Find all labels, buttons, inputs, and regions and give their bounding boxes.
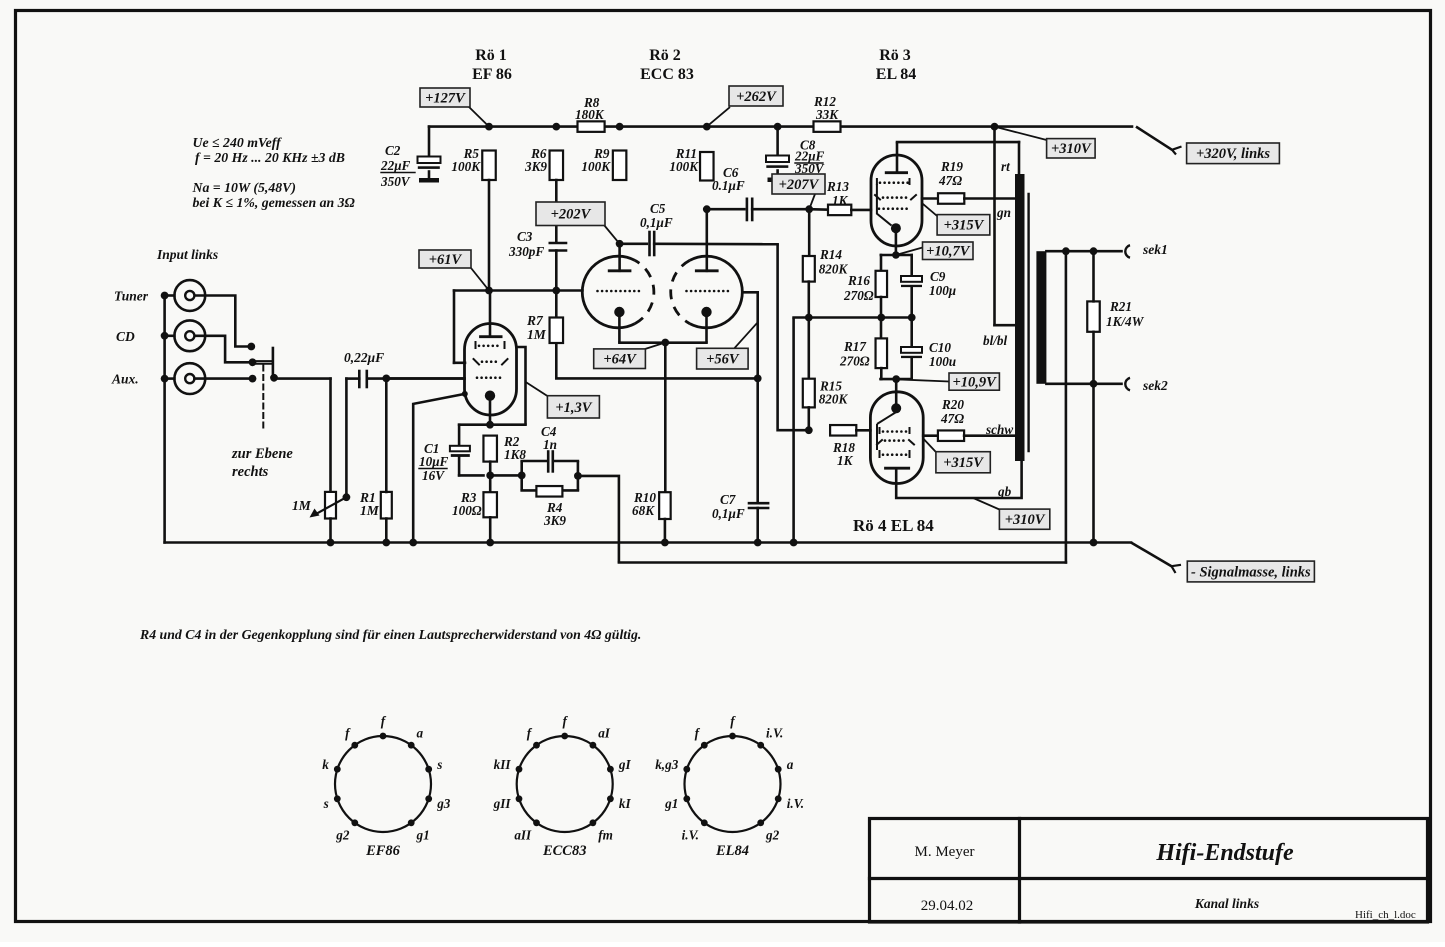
svg-text:s: s: [323, 796, 329, 811]
svg-text:350V: 350V: [380, 174, 411, 189]
svg-text:330pF: 330pF: [508, 244, 544, 259]
svg-text:1K: 1K: [837, 453, 854, 468]
svg-text:R14: R14: [819, 247, 842, 262]
svg-text:+315V: +315V: [944, 218, 985, 234]
svg-text:Hifi_ch_l.doc: Hifi_ch_l.doc: [1355, 909, 1416, 921]
svg-text:aII: aII: [514, 827, 532, 842]
svg-text:+320V, links: +320V, links: [1196, 146, 1270, 162]
svg-text:Rö 4 EL 84: Rö 4 EL 84: [853, 516, 934, 535]
svg-text:R20: R20: [941, 397, 964, 412]
svg-text:100K: 100K: [581, 159, 611, 174]
svg-text:g3: g3: [436, 796, 451, 811]
svg-text:Kanal links: Kanal links: [1194, 896, 1259, 911]
svg-text:Aux.: Aux.: [111, 372, 139, 387]
svg-text:C2: C2: [385, 143, 401, 158]
svg-text:Ue ≤ 240 mVeff: Ue ≤ 240 mVeff: [193, 135, 283, 150]
svg-text:EL84: EL84: [715, 843, 749, 859]
svg-text:C5: C5: [650, 201, 666, 216]
svg-text:ECC 83: ECC 83: [640, 66, 694, 83]
svg-text:100Ω: 100Ω: [452, 503, 482, 518]
svg-text:100u: 100u: [929, 354, 956, 369]
svg-text:bei K ≤ 1%, gemessen an 3Ω: bei K ≤ 1%, gemessen an 3Ω: [193, 195, 356, 210]
svg-text:g1: g1: [664, 796, 678, 811]
svg-text:Rö 3: Rö 3: [879, 47, 911, 64]
svg-text:3K9: 3K9: [524, 159, 547, 174]
svg-text:Rö 2: Rö 2: [649, 47, 681, 64]
svg-text:0,1μF: 0,1μF: [712, 506, 745, 521]
svg-text:- Signalmasse, links: - Signalmasse, links: [1191, 564, 1311, 580]
svg-text:rt: rt: [1001, 159, 1010, 174]
svg-text:gn: gn: [996, 205, 1011, 220]
svg-text:68K: 68K: [632, 503, 655, 518]
svg-text:R7: R7: [526, 313, 544, 328]
svg-text:gII: gII: [493, 796, 512, 811]
svg-text:gb: gb: [997, 484, 1012, 499]
svg-text:C10: C10: [929, 340, 951, 355]
svg-text:+262V: +262V: [736, 89, 777, 105]
svg-text:+310V: +310V: [1051, 141, 1092, 157]
svg-text:M. Meyer: M. Meyer: [915, 844, 975, 860]
svg-text:kI: kI: [619, 796, 632, 811]
svg-text:+1,3V: +1,3V: [555, 400, 592, 416]
svg-text:R19: R19: [940, 159, 963, 174]
svg-text:+127V: +127V: [425, 90, 466, 106]
svg-text:EF86: EF86: [365, 843, 401, 859]
svg-text:1K/4W: 1K/4W: [1106, 314, 1145, 329]
svg-text:1M: 1M: [360, 503, 380, 518]
svg-text:820K: 820K: [819, 392, 849, 407]
svg-text:i.V.: i.V.: [787, 796, 804, 811]
svg-text:270Ω: 270Ω: [839, 354, 870, 369]
svg-text:0.1μF: 0.1μF: [712, 178, 745, 193]
svg-text:R21: R21: [1109, 299, 1132, 314]
svg-text:schw: schw: [985, 422, 1013, 437]
svg-text:1M: 1M: [527, 327, 547, 342]
svg-text:+10,7V: +10,7V: [926, 244, 971, 260]
svg-text:1K: 1K: [832, 193, 849, 208]
svg-text:10μF: 10μF: [419, 454, 449, 469]
svg-text:R16: R16: [847, 273, 870, 288]
svg-text:100μ: 100μ: [929, 283, 956, 298]
svg-text:g2: g2: [765, 827, 780, 842]
svg-text:kII: kII: [494, 757, 512, 772]
svg-text:C9: C9: [930, 269, 946, 284]
svg-text:k,g3: k,g3: [655, 757, 678, 772]
svg-text:270Ω: 270Ω: [843, 288, 874, 303]
svg-text:Tuner: Tuner: [114, 289, 149, 304]
svg-text:EL 84: EL 84: [876, 66, 916, 83]
svg-text:33K: 33K: [815, 107, 839, 122]
svg-text:sek1: sek1: [1142, 242, 1168, 257]
svg-text:22μF: 22μF: [380, 158, 411, 173]
svg-text:g1: g1: [416, 827, 430, 842]
svg-text:100K: 100K: [669, 159, 699, 174]
svg-text:47Ω: 47Ω: [940, 411, 964, 426]
svg-text:180K: 180K: [575, 107, 605, 122]
svg-text:a: a: [787, 757, 794, 772]
svg-text:R13: R13: [826, 179, 849, 194]
svg-text:g2: g2: [335, 827, 350, 842]
svg-text:i.V.: i.V.: [682, 827, 699, 842]
svg-text:1n: 1n: [543, 437, 557, 452]
svg-text:+310V: +310V: [1005, 512, 1046, 528]
svg-text:k: k: [322, 757, 329, 772]
svg-text:0,22μF: 0,22μF: [344, 350, 384, 365]
svg-text:C3: C3: [517, 229, 533, 244]
svg-text:47Ω: 47Ω: [938, 173, 962, 188]
svg-text:gI: gI: [618, 757, 632, 772]
svg-text:bl/bl: bl/bl: [983, 333, 1008, 348]
svg-text:zur Ebene: zur Ebene: [231, 446, 293, 462]
svg-text:a: a: [417, 726, 424, 741]
svg-text:R17: R17: [843, 339, 867, 354]
svg-text:fm: fm: [598, 827, 613, 842]
svg-text:f = 20 Hz ... 20 KHz ±3 dB: f = 20 Hz ... 20 KHz ±3 dB: [195, 150, 345, 165]
svg-text:s: s: [436, 757, 442, 772]
svg-text:Na = 10W (5,48V): Na = 10W (5,48V): [192, 180, 296, 196]
svg-text:+207V: +207V: [779, 177, 820, 193]
svg-text:+64V: +64V: [603, 352, 637, 368]
svg-text:Rö 1: Rö 1: [475, 47, 507, 64]
svg-text:+315V: +315V: [943, 455, 984, 471]
svg-text:0,1μF: 0,1μF: [640, 215, 673, 230]
svg-text:3K9: 3K9: [543, 513, 566, 528]
svg-text:CD: CD: [116, 329, 135, 344]
svg-text:i.V.: i.V.: [766, 726, 783, 741]
svg-text:820K: 820K: [819, 262, 849, 277]
svg-text:+10,9V: +10,9V: [953, 375, 998, 391]
svg-text:rechts: rechts: [232, 464, 269, 480]
svg-text:EF 86: EF 86: [472, 66, 512, 83]
svg-text:+61V: +61V: [429, 252, 463, 268]
svg-text:1M: 1M: [292, 498, 312, 513]
svg-text:100K: 100K: [451, 159, 481, 174]
svg-text:C7: C7: [720, 492, 737, 507]
svg-text:+56V: +56V: [706, 352, 740, 368]
svg-text:ECC83: ECC83: [542, 843, 587, 859]
svg-text:R4 und C4 in der Gegenkopplun: R4 und C4 in der Gegenkopplung sind für …: [139, 627, 641, 642]
svg-text:16V: 16V: [422, 468, 445, 483]
svg-text:sek2: sek2: [1142, 378, 1168, 393]
svg-text:+202V: +202V: [551, 207, 592, 223]
svg-text:aI: aI: [598, 726, 611, 741]
svg-text:Input links: Input links: [156, 247, 218, 262]
svg-text:Hifi-Endstufe: Hifi-Endstufe: [1155, 840, 1294, 866]
svg-text:29.04.02: 29.04.02: [921, 898, 974, 914]
